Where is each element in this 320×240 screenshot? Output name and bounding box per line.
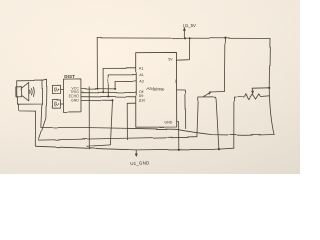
- wire: lower wire right drop to ground rail: [216, 97, 219, 150]
- DIST transducer square 1: [52, 85, 61, 93]
- wire: A2 horizontal: [108, 74, 135, 76]
- wiper diagonal: [204, 93, 210, 97]
- U1_5V arrow: [183, 29, 185, 38]
- wire: A3 drop: [114, 82, 116, 89]
- wire: A2 drop: [107, 75, 109, 97]
- svg-text:GND: GND: [71, 98, 79, 102]
- speaker SPK1 cone: [22, 82, 29, 101]
- potentiometer R1 wiper arrowhead: [252, 91, 254, 94]
- wire: speaker top-right jog: [42, 78, 47, 81]
- wire: long middle run speaker to pot right leg: [41, 127, 274, 135]
- svg-text:A3: A3: [139, 80, 144, 84]
- wire: DIST gnd-area long drop to ground rail: [88, 87, 90, 149]
- svg-text:5V: 5V: [168, 57, 173, 61]
- svg-text:U1_5V: U1_5V: [183, 23, 196, 28]
- wiper arrowhead: [208, 91, 211, 94]
- potentiometer R1 wiper arm: [251, 88, 253, 91]
- junction: speaker/DIST gnd on ground rail: [88, 147, 90, 149]
- svg-text:DIST: DIST: [64, 74, 75, 79]
- wire: A3 horizontal: [115, 80, 136, 82]
- wire: arduino 5V pin up to rail: [177, 38, 190, 60]
- wire: speaker right drop: [39, 79, 47, 140]
- wire: riser to transistor lower wire: [197, 97, 198, 137]
- wire: A1 horizontal: [103, 67, 136, 69]
- junction: rail drop on VCC wire: [96, 88, 98, 90]
- wire: speaker left bottom run to gnd junction: [35, 146, 89, 149]
- ground rail: [89, 148, 234, 150]
- speaker SPK1 enclosure box: [17, 80, 42, 104]
- svg-text:GND: GND: [164, 121, 172, 125]
- junction: U1_5V arrow on 5V rail: [184, 37, 186, 39]
- wire: speaker left terminal down-right jog: [18, 104, 35, 111]
- tick transducer1 to body: [61, 88, 64, 90]
- junction: pot wiper on right leg: [268, 87, 270, 89]
- potentiometer R1 wiper top wire: [252, 87, 269, 89]
- wire: 5V top rail: [97, 37, 270, 40]
- U1_GND arrow: [135, 150, 137, 155]
- wire: DIST TRIG to arduino D8: [81, 91, 136, 93]
- DIST transducer square 2: [52, 99, 61, 107]
- junction: wiper net drop on ground rail: [218, 149, 220, 151]
- wire: pot right leg from rail corner down to long wire: [269, 38, 274, 134]
- speaker SPK1 sound waves: [29, 90, 32, 94]
- svg-text:U1_GND: U1_GND: [130, 161, 150, 166]
- wire: GND pin drop to bottom run: [110, 100, 112, 145]
- junction: arduino 5V feed on rail: [189, 37, 191, 39]
- wire: rail drop to transistor upper wire: [223, 38, 226, 91]
- wire: bottom run from V6 leftward: [87, 145, 111, 146]
- wire: arduino GND pin drop to rail: [177, 121, 179, 149]
- junction: arduino GND on ground rail: [178, 148, 180, 150]
- junction: A3 drop on VCC wire: [114, 88, 116, 90]
- wire: 5V rail left end drop to VCC: [96, 38, 98, 89]
- junction: A2 drop on ECHO wire: [107, 96, 109, 98]
- wire: DIST ECHO to arduino D9: [81, 95, 136, 98]
- wire: A1 drop: [102, 68, 104, 92]
- svg-text:A2: A2: [139, 73, 144, 77]
- svg-text:A1: A1: [139, 67, 144, 71]
- transistor/wiper upper wire: [209, 90, 224, 93]
- junction: GND drop on GND wire: [112, 99, 114, 101]
- tick transducer2 to body: [61, 103, 64, 105]
- svg-text:D10: D10: [139, 99, 145, 103]
- junction: wiper branch on rail: [224, 37, 226, 39]
- wire: arduino D10 to left and down: [127, 103, 136, 140]
- potentiometer R1 left lead riser from rail: [233, 97, 235, 149]
- wire: box lower-right drop to long wire: [41, 104, 42, 127]
- wire: DIST GND stub: [81, 99, 113, 101]
- transistor lower wire: [198, 96, 215, 98]
- wire: arduino A0 pin drop: [177, 90, 186, 129]
- svg-text:A0: A0: [161, 89, 165, 92]
- junction: A1 drop on TRIG wire: [102, 91, 104, 93]
- wire: speaker-right long run to pot lower wire riser: [39, 137, 197, 140]
- speaker SPK1 driver rectangle: [16, 86, 21, 97]
- Arduino U1 body: [136, 52, 177, 127]
- wire: speaker left drop: [34, 111, 36, 146]
- DIST sensor U2 body: [63, 79, 81, 112]
- potentiometer R1 body zigzag: [234, 94, 269, 99]
- wire: DIST VCC to rail drop and A3 drop: [81, 88, 115, 90]
